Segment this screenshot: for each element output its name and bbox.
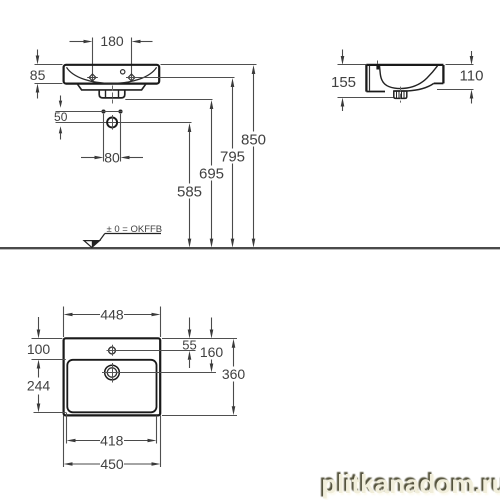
svg-text:448: 448 bbox=[100, 307, 124, 323]
svg-text:100: 100 bbox=[27, 341, 51, 357]
svg-text:50: 50 bbox=[54, 110, 68, 124]
svg-text:85: 85 bbox=[30, 67, 46, 83]
svg-text:795: 795 bbox=[220, 148, 245, 165]
svg-text:850: 850 bbox=[241, 131, 266, 148]
svg-text:695: 695 bbox=[199, 165, 224, 182]
svg-text:plitkanadom.ru: plitkanadom.ru bbox=[321, 469, 500, 499]
svg-text:418: 418 bbox=[100, 433, 124, 449]
svg-text:80: 80 bbox=[104, 149, 120, 165]
svg-text:244: 244 bbox=[27, 378, 51, 394]
svg-text:585: 585 bbox=[177, 183, 202, 200]
svg-text:155: 155 bbox=[331, 74, 356, 91]
svg-text:± 0 = OKFFB: ± 0 = OKFFB bbox=[107, 224, 163, 235]
svg-text:360: 360 bbox=[222, 366, 246, 382]
svg-text:55: 55 bbox=[182, 337, 196, 352]
svg-text:450: 450 bbox=[100, 456, 124, 472]
svg-text:180: 180 bbox=[100, 33, 124, 49]
svg-text:110: 110 bbox=[460, 68, 484, 85]
svg-text:160: 160 bbox=[200, 344, 224, 360]
